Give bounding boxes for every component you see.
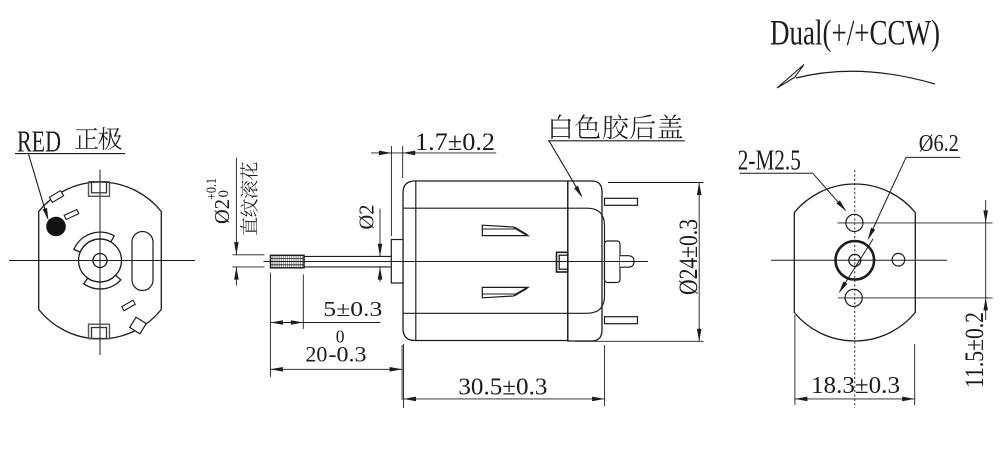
svg-text:-0.3: -0.3: [329, 342, 367, 367]
svg-text:0: 0: [216, 190, 232, 198]
svg-text:20: 20: [305, 342, 327, 367]
svg-text:2-M2.5: 2-M2.5: [738, 145, 801, 176]
svg-text:11.5±0.2: 11.5±0.2: [960, 312, 989, 388]
svg-text:Ø2: Ø2: [355, 205, 379, 230]
svg-text:Dual(+/+CCW): Dual(+/+CCW): [770, 13, 940, 53]
svg-text:0: 0: [336, 326, 345, 346]
svg-text:18.3±0.3: 18.3±0.3: [811, 372, 900, 399]
svg-text:5±0.3: 5±0.3: [323, 297, 382, 321]
svg-text:Ø2: Ø2: [210, 199, 234, 224]
svg-text:Ø6.2: Ø6.2: [919, 130, 959, 157]
svg-text:Ø24±0.3: Ø24±0.3: [674, 219, 703, 295]
svg-text:30.5±0.3: 30.5±0.3: [458, 374, 547, 401]
svg-text:1.7±0.2: 1.7±0.2: [415, 127, 495, 156]
